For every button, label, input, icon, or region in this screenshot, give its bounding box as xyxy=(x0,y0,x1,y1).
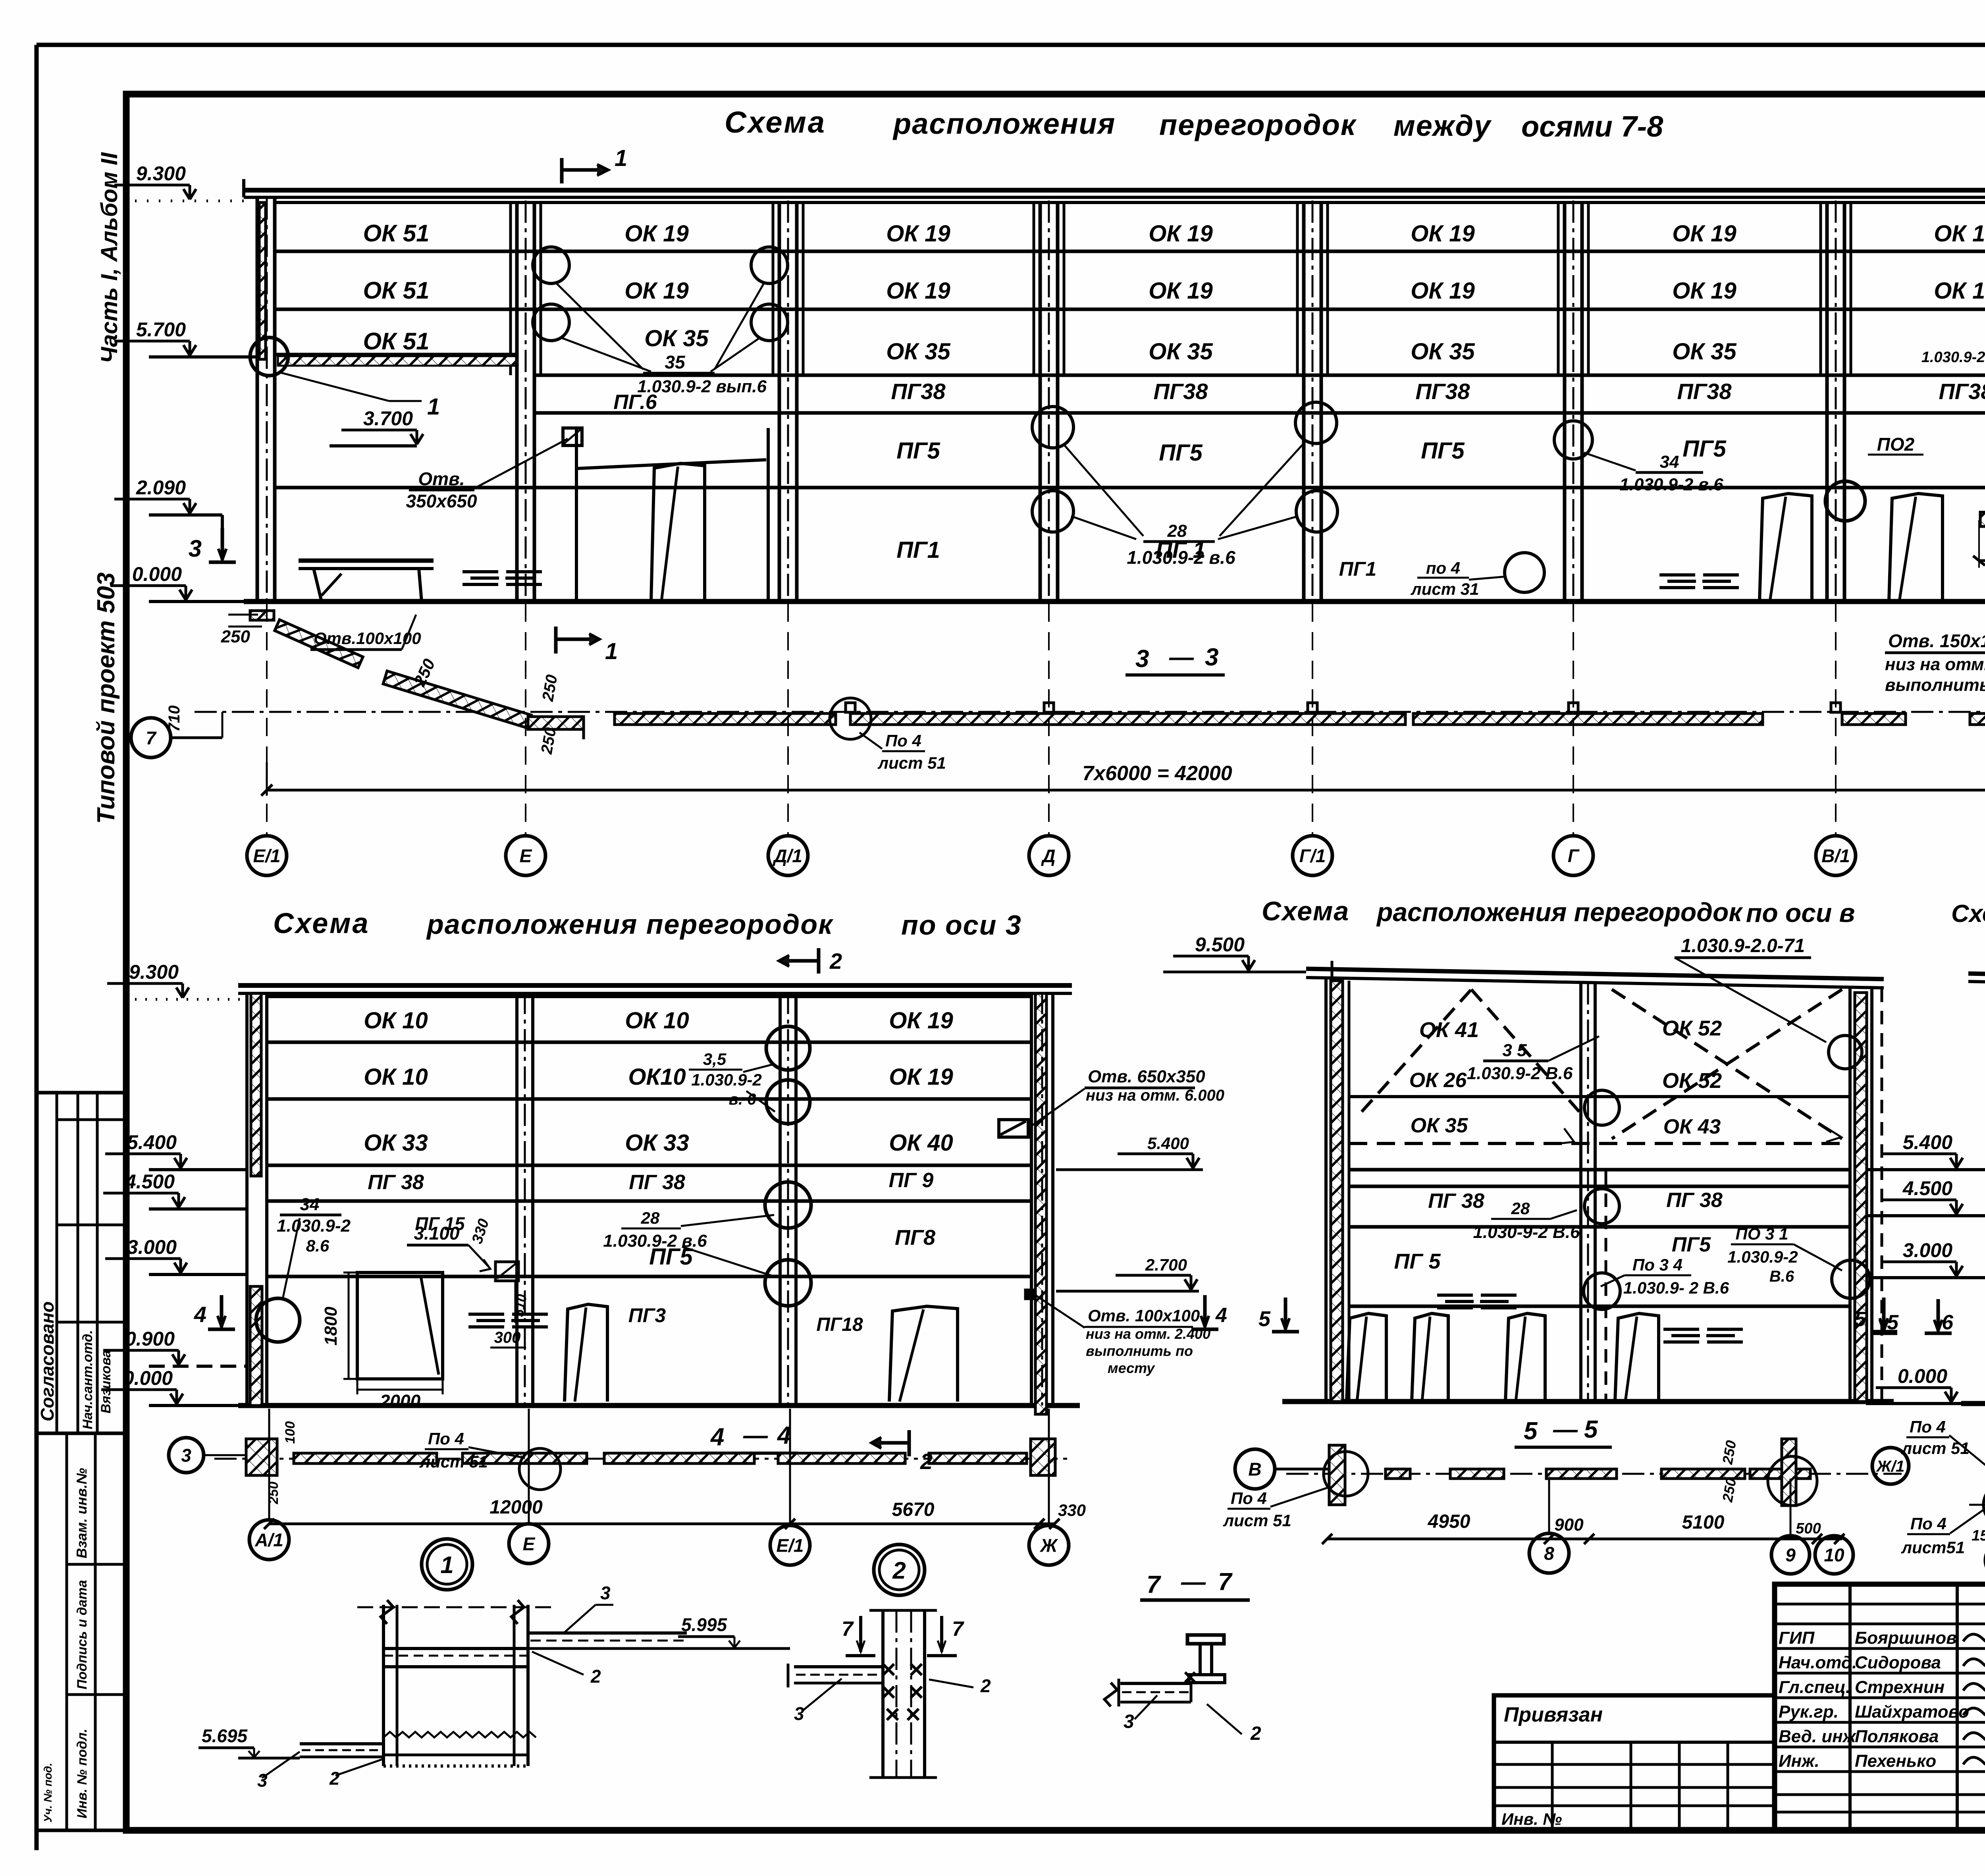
svg-text:5100: 5100 xyxy=(1682,1512,1725,1533)
svg-text:лист 51: лист 51 xyxy=(419,1452,488,1471)
svg-text:3.000: 3.000 xyxy=(127,1236,177,1258)
svg-text:ПГ 38: ПГ 38 xyxy=(368,1171,424,1194)
svg-text:1.030.9-2 в.6: 1.030.9-2 в.6 xyxy=(1127,547,1235,568)
svg-text:ПГ1: ПГ1 xyxy=(1339,558,1376,580)
leader circles bay4 xyxy=(1032,407,1073,448)
svg-text:ПГ1: ПГ1 xyxy=(896,537,940,563)
bay1 bench xyxy=(299,559,434,563)
section mark 2 bottom xyxy=(908,1430,911,1456)
svg-text:Ж: Ж xyxy=(1040,1535,1058,1556)
svg-text:9.300: 9.300 xyxy=(129,961,179,983)
svg-text:4: 4 xyxy=(710,1423,724,1451)
svg-text:3.000: 3.000 xyxy=(1903,1239,1952,1261)
svg-text:330: 330 xyxy=(1058,1501,1086,1519)
svg-text:ПО2: ПО2 xyxy=(1877,434,1915,455)
svg-text:150: 150 xyxy=(1972,1527,1985,1544)
svg-text:Нач.сант.отд.: Нач.сант.отд. xyxy=(80,1330,95,1429)
svg-text:9: 9 xyxy=(1785,1545,1796,1566)
svg-text:12000: 12000 xyxy=(490,1497,543,1518)
svg-text:1: 1 xyxy=(615,145,627,171)
svg-text:ОК 19: ОК 19 xyxy=(1411,221,1474,247)
svg-text:По 3 4: По 3 4 xyxy=(1632,1255,1682,1274)
section 5-5 strip xyxy=(1286,1473,1902,1475)
svg-text:Инж.: Инж. xyxy=(1779,1751,1819,1771)
svg-text:0.900: 0.900 xyxy=(125,1328,175,1350)
svg-text:5: 5 xyxy=(1258,1307,1271,1331)
right drawing floor xyxy=(1961,1401,1985,1406)
svg-text:По 4: По 4 xyxy=(1231,1489,1267,1508)
svg-text:28: 28 xyxy=(641,1209,660,1227)
svg-text:ОК 35: ОК 35 xyxy=(1672,339,1736,364)
svg-text:ПГ8: ПГ8 xyxy=(895,1226,935,1249)
svg-text:В: В xyxy=(1248,1459,1261,1480)
svg-text:Схема: Схема xyxy=(725,106,826,139)
svg-text:ОК 41: ОК 41 xyxy=(1419,1018,1479,1042)
svg-text:ОК 35: ОК 35 xyxy=(1411,1114,1469,1137)
svg-text:Стрехнин: Стрехнин xyxy=(1855,1677,1945,1697)
svg-text:ПГ38: ПГ38 xyxy=(1154,379,1208,404)
svg-text:ОК 51: ОК 51 xyxy=(363,328,430,355)
svg-text:3: 3 xyxy=(794,1703,804,1724)
svg-text:Взам. инв.№: Взам. инв.№ xyxy=(73,1468,90,1558)
svg-text:Шайхратово: Шайхратово xyxy=(1855,1702,1969,1722)
svg-text:5670: 5670 xyxy=(892,1499,935,1520)
svg-text:Подпись и дата: Подпись и дата xyxy=(75,1580,90,1689)
leader circle 1 at wall Е/1 xyxy=(250,337,288,376)
svg-text:выполнить по: выполнить по xyxy=(1086,1343,1193,1359)
svg-text:4.500: 4.500 xyxy=(1902,1177,1952,1199)
ramp below bay1 xyxy=(250,611,274,620)
svg-text:3: 3 xyxy=(1205,644,1218,671)
column axis Д/1 xyxy=(778,202,781,602)
svg-text:2: 2 xyxy=(980,1675,991,1696)
svg-text:ОК 10: ОК 10 xyxy=(364,1008,428,1033)
detail 1 drawing xyxy=(357,1606,552,1608)
svg-text:по оси 3: по оси 3 xyxy=(901,910,1022,941)
svg-text:10: 10 xyxy=(1824,1545,1844,1566)
top drawing roof xyxy=(244,188,1985,193)
svg-text:ОК 52: ОК 52 xyxy=(1662,1069,1722,1093)
svg-text:ПГ5: ПГ5 xyxy=(896,438,940,464)
svg-text:8: 8 xyxy=(1544,1543,1554,1564)
svg-text:9.500: 9.500 xyxy=(1195,933,1245,956)
svg-text:Схема расположения перегородок: Схема расположения перегородок по оси ж/… xyxy=(1951,900,1985,927)
small squares on 3-3 xyxy=(846,703,855,712)
svg-text:ПГ5: ПГ5 xyxy=(1159,440,1203,466)
svg-text:Е: Е xyxy=(523,1534,536,1554)
svg-text:расположения: расположения xyxy=(892,107,1116,140)
svg-text:34: 34 xyxy=(300,1195,320,1214)
svg-text:500: 500 xyxy=(1796,1520,1821,1537)
svg-text:ОК 33: ОК 33 xyxy=(364,1130,428,1156)
svg-text:Д: Д xyxy=(1041,846,1055,866)
svg-text:4: 4 xyxy=(194,1302,206,1327)
sidebar lower table xyxy=(37,1433,126,1830)
svg-text:Отв. 100х100: Отв. 100х100 xyxy=(1088,1306,1200,1325)
bricks bay6 xyxy=(1659,573,1695,576)
svg-text:7: 7 xyxy=(842,1618,854,1641)
svg-text:5.400: 5.400 xyxy=(127,1131,177,1153)
svg-text:Пехенько: Пехенько xyxy=(1855,1751,1936,1771)
right drawing roof xyxy=(1968,974,1985,980)
svg-text:1800: 1800 xyxy=(321,1307,341,1346)
column axis Е xyxy=(515,202,519,602)
lintel band lines xyxy=(534,411,1985,415)
svg-text:4: 4 xyxy=(1215,1304,1227,1327)
svg-text:ОК 19: ОК 19 xyxy=(1411,278,1474,304)
svg-text:350х650: 350х650 xyxy=(406,491,477,511)
svg-text:7: 7 xyxy=(952,1618,964,1641)
svg-text:ОК 10: ОК 10 xyxy=(625,1008,689,1033)
svg-text:3: 3 xyxy=(1124,1711,1134,1732)
svg-text:5: 5 xyxy=(1584,1416,1598,1443)
svg-text:3: 3 xyxy=(181,1445,191,1466)
axis circle Ж/1 crossed xyxy=(1872,1448,1909,1484)
svg-text:лист 51: лист 51 xyxy=(877,754,946,772)
dimension rect 1800x2000 bay1 xyxy=(357,1273,443,1379)
svg-text:2: 2 xyxy=(1250,1723,1261,1744)
svg-text:ПГ 38: ПГ 38 xyxy=(1666,1189,1723,1212)
svg-text:Отв. 150х150: Отв. 150х150 xyxy=(1888,630,1985,651)
приказ box xyxy=(1494,1695,1775,1830)
svg-text:В/1: В/1 xyxy=(1821,846,1850,866)
dim 7x6000=42000 xyxy=(267,789,1985,792)
middle doors xyxy=(1347,1313,1386,1402)
beam left of 7-7 xyxy=(1120,1682,1191,1685)
middle column xyxy=(1579,984,1582,1402)
svg-text:Рук.гр.: Рук.гр. xyxy=(1779,1702,1839,1722)
middle right wall xyxy=(1855,993,1867,1402)
svg-text:перегородок: перегородок xyxy=(1159,108,1357,141)
svg-text:5: 5 xyxy=(1854,1308,1866,1331)
svg-text:3 5: 3 5 xyxy=(1502,1041,1527,1060)
svg-text:По 4: По 4 xyxy=(885,731,921,750)
svg-text:Е/1: Е/1 xyxy=(253,846,280,866)
svg-text:Отв. 650х350: Отв. 650х350 xyxy=(1088,1067,1205,1086)
left drawing floor xyxy=(238,1403,1080,1408)
svg-text:28: 28 xyxy=(1167,521,1187,541)
svg-text:Вед. инж: Вед. инж xyxy=(1779,1727,1857,1746)
svg-text:100: 100 xyxy=(283,1421,298,1444)
svg-text:ПГ3: ПГ3 xyxy=(628,1304,666,1327)
svg-text:ОК10: ОК10 xyxy=(628,1064,686,1090)
svg-text:1.030.9-2: 1.030.9-2 xyxy=(277,1216,351,1236)
column axis В/1 xyxy=(1825,202,1829,602)
column axis Д xyxy=(1039,202,1042,602)
svg-text:ОК 19: ОК 19 xyxy=(1934,221,1985,247)
svg-text:1.030.9-2 В.6: 1.030.9-2 В.6 xyxy=(1467,1064,1573,1083)
svg-text:А/1: А/1 xyxy=(254,1530,283,1550)
beam right of detail 1 xyxy=(528,1631,687,1635)
svg-text:ПГ 38: ПГ 38 xyxy=(629,1171,685,1194)
svg-text:2: 2 xyxy=(829,949,842,974)
svg-text:ПГ5: ПГ5 xyxy=(1421,438,1465,464)
svg-text:осями 7-8: осями 7-8 xyxy=(1521,110,1663,143)
svg-text:ПГ38: ПГ38 xyxy=(1939,379,1985,404)
svg-text:Отв.100х100: Отв.100х100 xyxy=(314,629,421,648)
svg-text:ОК 51: ОК 51 xyxy=(363,277,430,304)
svg-text:ОК 19: ОК 19 xyxy=(886,221,950,247)
svg-text:3: 3 xyxy=(257,1770,268,1791)
svg-text:ОК 19: ОК 19 xyxy=(1934,278,1985,304)
svg-text:лист 31: лист 31 xyxy=(1411,580,1479,598)
svg-text:2: 2 xyxy=(920,1449,933,1474)
svg-text:расположения перегородок: расположения перегородок xyxy=(1376,897,1743,927)
svg-text:2: 2 xyxy=(892,1557,906,1584)
5-5 left wall section xyxy=(1329,1445,1345,1505)
svg-text:28: 28 xyxy=(1511,1199,1530,1218)
svg-text:ПГ38: ПГ38 xyxy=(891,379,946,404)
svg-text:0.000: 0.000 xyxy=(1898,1365,1947,1387)
svg-text:9.300: 9.300 xyxy=(136,162,186,185)
svg-text:ОК 19: ОК 19 xyxy=(624,278,688,304)
svg-text:—: — xyxy=(1181,1568,1206,1596)
svg-text:ОК 51: ОК 51 xyxy=(363,220,430,247)
dim line 12000 5670 330 xyxy=(269,1523,1054,1525)
svg-text:В.6: В.6 xyxy=(1769,1268,1794,1285)
big ramp xyxy=(383,671,531,728)
svg-text:3,5: 3,5 xyxy=(703,1050,727,1068)
svg-text:ОК 19: ОК 19 xyxy=(1149,221,1212,247)
svg-text:Д/1: Д/1 xyxy=(772,846,802,866)
dim 4950 900 5100 500 xyxy=(1327,1538,1842,1541)
svg-text:7: 7 xyxy=(1218,1568,1233,1596)
svg-text:ОК 35: ОК 35 xyxy=(644,326,709,351)
svg-text:Инв. № подл.: Инв. № подл. xyxy=(75,1729,90,1818)
svg-text:1: 1 xyxy=(427,394,440,420)
svg-text:1: 1 xyxy=(440,1552,453,1578)
middle row lines xyxy=(1349,1095,1850,1098)
middle floor xyxy=(1282,1399,1894,1404)
svg-text:Полякова: Полякова xyxy=(1855,1727,1939,1746)
svg-text:ПГ18: ПГ18 xyxy=(816,1314,863,1335)
svg-text:ОК 10: ОК 10 xyxy=(364,1064,428,1090)
svg-text:Е: Е xyxy=(520,846,532,866)
svg-text:1.030.9-2.0-71: 1.030.9-2.0-71 xyxy=(1681,935,1805,956)
svg-text:ОК 35: ОК 35 xyxy=(1149,339,1213,364)
svg-text:Инв. №: Инв. № xyxy=(1501,1810,1562,1828)
svg-text:Привязан: Привязан xyxy=(1504,1703,1603,1726)
title block outer xyxy=(1775,1584,1985,1830)
axis row circles top drawing xyxy=(266,603,268,836)
svg-text:1.030.9-2 в.6: 1.030.9-2 в.6 xyxy=(1619,475,1723,494)
svg-text:5.700: 5.700 xyxy=(136,318,186,341)
detail circle 1 xyxy=(422,1539,472,1590)
svg-text:ОК 43: ОК 43 xyxy=(1663,1115,1721,1138)
svg-text:6: 6 xyxy=(1942,1311,1954,1334)
top drawing floor line xyxy=(244,599,1985,604)
svg-text:ПГ5: ПГ5 xyxy=(1672,1233,1711,1256)
svg-text:ОК 19: ОК 19 xyxy=(624,221,688,247)
section mark 2 top xyxy=(817,948,821,974)
svg-text:0.000: 0.000 xyxy=(132,563,182,585)
svg-text:Нач.отд.: Нач.отд. xyxy=(1779,1653,1857,1672)
svg-text:—: — xyxy=(1553,1416,1578,1443)
svg-text:Схема: Схема xyxy=(273,908,370,939)
svg-text:Уч. № под.: Уч. № под. xyxy=(42,1763,54,1822)
5-5 right wall section xyxy=(1782,1439,1796,1506)
svg-text:лист 51: лист 51 xyxy=(1223,1511,1291,1530)
svg-text:7: 7 xyxy=(146,728,157,748)
left drawing row lines xyxy=(267,995,1031,998)
svg-text:Г: Г xyxy=(1568,846,1580,866)
staff table xyxy=(1848,1584,1852,1830)
column axis Г/1 xyxy=(1302,202,1306,602)
note по 4 лист 51 under 3-3 xyxy=(830,698,871,739)
svg-text:1.030.9-2 В.6: 1.030.9-2 В.6 xyxy=(1921,349,1985,366)
svg-text:ОК 40: ОК 40 xyxy=(889,1130,953,1156)
svg-text:низ на отм. 2.200: низ на отм. 2.200 xyxy=(1885,655,1985,674)
svg-text:2.700: 2.700 xyxy=(1145,1255,1187,1274)
svg-text:—: — xyxy=(743,1422,768,1449)
svg-text:4: 4 xyxy=(777,1422,791,1449)
svg-text:Ж/1: Ж/1 xyxy=(1876,1458,1904,1475)
svg-text:7: 7 xyxy=(1147,1571,1161,1598)
svg-text:ОК 33: ОК 33 xyxy=(625,1130,689,1156)
svg-text:ОК 52: ОК 52 xyxy=(1662,1016,1722,1040)
svg-text:2: 2 xyxy=(590,1666,601,1687)
svg-text:По 4: По 4 xyxy=(428,1429,464,1448)
svg-text:месту: месту xyxy=(1108,1360,1155,1376)
svg-text:Часть I, Альбом II: Часть I, Альбом II xyxy=(96,152,122,363)
svg-text:3: 3 xyxy=(600,1583,611,1603)
svg-text:лист 51: лист 51 xyxy=(1901,1439,1970,1458)
section 3-3 slab strips xyxy=(615,713,836,725)
svg-text:между: между xyxy=(1393,109,1492,142)
svg-text:по 4: по 4 xyxy=(1426,559,1460,577)
axis circle 3 left of 4-4 xyxy=(169,1438,204,1473)
axis circles below 4-4 xyxy=(268,1409,270,1519)
svg-text:Отв.: Отв. xyxy=(418,469,464,489)
bay2 doorway xyxy=(575,428,578,602)
svg-text:ПГ 38: ПГ 38 xyxy=(1428,1190,1484,1213)
section mark 1 bottom xyxy=(554,627,558,654)
svg-text:ОК 35: ОК 35 xyxy=(1411,339,1475,364)
axis circle 7 left of 3-3 xyxy=(131,718,171,758)
svg-text:Вязикова: Вязикова xyxy=(98,1350,114,1413)
svg-text:5: 5 xyxy=(1524,1417,1538,1445)
svg-text:ОК 19: ОК 19 xyxy=(889,1064,953,1090)
axis circle В 5-5 xyxy=(1235,1449,1275,1489)
middle leader circles xyxy=(1584,1090,1619,1125)
svg-text:5.695: 5.695 xyxy=(202,1726,248,1746)
svg-text:Типовой проект 503: Типовой проект 503 xyxy=(93,573,120,824)
outer border xyxy=(37,43,1985,47)
left beam of detail 1 xyxy=(300,1742,384,1745)
column axis Г xyxy=(1563,202,1567,602)
svg-text:ОК 19: ОК 19 xyxy=(889,1008,953,1033)
bay6 bay7 doors xyxy=(1760,494,1812,602)
svg-text:1: 1 xyxy=(605,638,618,664)
serrated line xyxy=(384,1732,536,1737)
svg-text:По 4: По 4 xyxy=(1910,1417,1946,1436)
svg-text:ОК 19: ОК 19 xyxy=(1672,278,1736,304)
svg-text:лист51: лист51 xyxy=(1901,1538,1965,1557)
svg-text:ГИП: ГИП xyxy=(1779,1628,1815,1648)
svg-text:Согласовано: Согласовано xyxy=(37,1301,58,1421)
sidebar approval table xyxy=(37,1093,126,1433)
svg-text:в. 6: в. 6 xyxy=(729,1091,756,1108)
detail circle 2 xyxy=(874,1544,925,1595)
svg-text:1.030.9-2: 1.030.9-2 xyxy=(1727,1247,1798,1266)
svg-text:8.6: 8.6 xyxy=(306,1236,330,1255)
left wall axis Е/1 xyxy=(256,197,259,602)
svg-text:3: 3 xyxy=(1135,645,1149,673)
left drawing left wall xyxy=(245,993,249,1406)
svg-text:710: 710 xyxy=(166,706,183,732)
svg-text:1.030.9- 2 В.6: 1.030.9- 2 В.6 xyxy=(1623,1278,1729,1297)
middle roof xyxy=(1306,969,1884,979)
middle left wall xyxy=(1331,981,1343,1402)
svg-text:4950: 4950 xyxy=(1428,1511,1470,1532)
leader circles bay2 xyxy=(533,247,569,283)
svg-text:Сидорова: Сидорова xyxy=(1855,1653,1941,1672)
svg-text:1.030.9-2 в.6: 1.030.9-2 в.6 xyxy=(603,1231,707,1251)
svg-text:1.030.9-2 вып.6: 1.030.9-2 вып.6 xyxy=(637,377,767,396)
svg-text:ПГ 9: ПГ 9 xyxy=(889,1169,934,1192)
I-beam detail 7-7 xyxy=(1187,1635,1224,1644)
svg-text:2000: 2000 xyxy=(380,1391,421,1411)
section 3-3 centerline xyxy=(195,711,1985,713)
svg-text:1.030.9-2: 1.030.9-2 xyxy=(691,1070,761,1089)
detail 2 drawing xyxy=(881,1610,885,1778)
svg-text:3.100: 3.100 xyxy=(414,1223,460,1244)
svg-text:ОК 19: ОК 19 xyxy=(1672,221,1736,247)
svg-text:Бояршинов: Бояршинов xyxy=(1855,1628,1957,1648)
svg-text:5.400: 5.400 xyxy=(1903,1131,1952,1153)
svg-text:по оси в: по оси в xyxy=(1746,898,1855,927)
svg-text:ПГ38: ПГ38 xyxy=(1416,379,1470,404)
svg-text:ОК 26: ОК 26 xyxy=(1409,1069,1467,1092)
svg-text:Е/1: Е/1 xyxy=(776,1535,804,1556)
svg-text:выполнить по месту: выполнить по месту xyxy=(1885,675,1985,695)
svg-text:расположения перегородок: расположения перегородок xyxy=(426,909,834,940)
svg-text:ОК 19: ОК 19 xyxy=(1149,278,1212,304)
svg-text:5: 5 xyxy=(1887,1311,1899,1334)
svg-text:низ на отм. 6.000: низ на отм. 6.000 xyxy=(1086,1087,1224,1104)
svg-text:—: — xyxy=(1169,644,1194,671)
doors left drawing xyxy=(565,1304,607,1402)
svg-text:2: 2 xyxy=(329,1768,340,1789)
svg-text:Схема: Схема xyxy=(1262,896,1349,926)
svg-text:Гл.спец.: Гл.спец. xyxy=(1779,1677,1850,1697)
middle X braces xyxy=(1362,989,1471,1112)
left drawing roof xyxy=(238,983,1072,988)
svg-text:ОК 19: ОК 19 xyxy=(886,278,950,304)
svg-text:300: 300 xyxy=(494,1329,521,1346)
left drawing columns xyxy=(515,993,518,1406)
left drawing right wall xyxy=(1030,993,1033,1406)
svg-text:34: 34 xyxy=(1660,452,1679,472)
svg-text:ОК 35: ОК 35 xyxy=(886,339,950,364)
svg-text:5.400: 5.400 xyxy=(1147,1134,1189,1153)
svg-text:7х6000 = 42000: 7х6000 = 42000 xyxy=(1082,762,1232,785)
svg-text:0.000: 0.000 xyxy=(123,1367,173,1389)
svg-text:3: 3 xyxy=(189,535,202,562)
svg-text:ПГ5: ПГ5 xyxy=(1682,436,1726,462)
svg-text:ПО 3 1: ПО 3 1 xyxy=(1736,1224,1788,1243)
section mark 1 top xyxy=(560,158,564,183)
svg-text:ПГ38: ПГ38 xyxy=(1677,379,1732,404)
svg-text:3.700: 3.700 xyxy=(363,407,413,430)
svg-text:2.090: 2.090 xyxy=(136,476,186,499)
svg-text:ПГ 5: ПГ 5 xyxy=(1394,1249,1441,1273)
svg-text:4.500: 4.500 xyxy=(125,1170,175,1193)
section 6-6 strip xyxy=(1969,1504,1985,1506)
window row lines xyxy=(275,201,1985,204)
section 4-4 strip xyxy=(214,1458,1072,1460)
svg-text:900: 900 xyxy=(1554,1515,1584,1535)
